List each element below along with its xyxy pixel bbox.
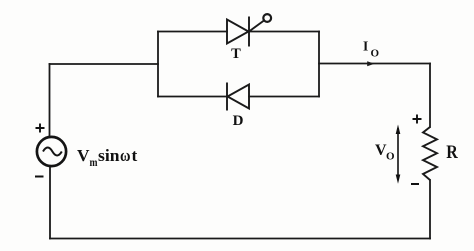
svg-text:D: D (233, 113, 244, 129)
minus sign source (35, 176, 44, 178)
svg-text:I: I (363, 39, 368, 54)
svg-text:T: T (231, 46, 241, 62)
wire top-left horizontal (50, 63, 159, 65)
svg-text:t: t (132, 146, 138, 165)
wire top branch right segment (249, 31, 319, 33)
wire bottom horizontal (50, 238, 430, 240)
wire left vertical lower (49, 167, 51, 239)
svg-text:m: m (90, 157, 98, 169)
svg-text:sin: sin (98, 146, 120, 165)
wire bottom branch left segment (158, 96, 227, 98)
thyristor T (227, 14, 271, 46)
arrow Vo (396, 125, 401, 184)
resistor R (423, 127, 437, 180)
svg-text:O: O (371, 48, 380, 60)
svg-text:R: R (446, 142, 458, 163)
svg-text:O: O (386, 151, 395, 163)
plus sign source (36, 124, 45, 133)
wire top branch left segment (158, 31, 227, 33)
svg-text:ω: ω (120, 146, 131, 165)
wire bottom branch right segment (249, 96, 319, 98)
wire right vertical upper (429, 64, 431, 128)
wire left vertical upper (49, 64, 51, 137)
wire block left vertical (157, 32, 159, 97)
minus sign load (411, 183, 419, 185)
wire block right vertical (318, 32, 320, 97)
arrowhead Io (367, 61, 374, 66)
diode D (227, 83, 249, 111)
wire right vertical lower (429, 180, 431, 239)
plus sign load (413, 115, 422, 124)
wire output horizontal (319, 63, 430, 65)
ac source Vm (37, 137, 66, 166)
svg-text:V: V (77, 146, 90, 165)
